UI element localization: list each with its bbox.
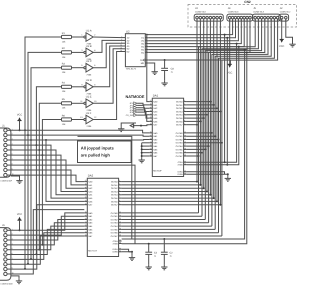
svg-text:OUTB1: OUTB1 (176, 135, 184, 138)
svg-text:All joypad inputs: All joypad inputs (81, 146, 115, 151)
wire DA2 OUTA3 to bus (122, 191, 208, 193)
svg-text:VCC: VCC (17, 213, 22, 216)
svg-text:OUTB0: OUTB0 (111, 212, 119, 215)
wire U1:B output riser to U2 pin 2D (93, 40, 122, 52)
IC U2 74ALS174 hex flip-flop (120, 30, 148, 71)
wire DA1 DIRA DIRB to ground (187, 172, 229, 176)
ground U2 MR (152, 70, 158, 75)
IC DA1 MD-BUF (149, 94, 186, 177)
wire DA1 OUTB0 to bus (187, 132, 213, 134)
wire J5 pin5 to bus B4 (212, 19, 268, 226)
wire J3 pin to DA1 OUTA1 and DA2 OUTA1 (187, 104, 215, 106)
ground DA2 DIR (129, 255, 135, 260)
wire J5 pin3 to bus B2 (205, 19, 261, 220)
svg-text:OUTB5: OUTB5 (176, 148, 184, 151)
svg-text:OUTA1: OUTA1 (111, 184, 119, 187)
wire DA2 OUTA5 to bus (122, 197, 215, 199)
svg-text:OUTA2: OUTA2 (176, 107, 184, 110)
wire R5 left to J1 bus and J6 (38, 103, 61, 250)
svg-text:OUTA4: OUTA4 (111, 194, 119, 197)
wire J6 pin1 to DA2 NB0 (11, 213, 84, 230)
wire J3 pin to DA1 OUTA2 and DA2 OUTA2 (187, 107, 218, 109)
svg-text:U1:C: U1:C (86, 60, 92, 63)
wire U1:D output riser to U2 pin 4D (93, 46, 122, 87)
resistor R4 (62, 82, 72, 94)
wire CD_SW to DA1 NA6 (137, 115, 149, 121)
wire U2 MR to ground (148, 63, 155, 70)
wire J6 pin5 to DA2 NB4 (11, 226, 84, 250)
IC DA2 MD-OUT (84, 174, 121, 257)
svg-text:OUTB0: OUTB0 (176, 132, 184, 135)
wire DA2 OUTA2 to bus (122, 187, 205, 189)
svg-text:OUTA6: OUTA6 (176, 120, 184, 123)
power flag VCC at J2 (279, 39, 284, 48)
wire U2 row to J4 pin 7 (148, 19, 247, 50)
svg-text:DA1: DA1 (153, 94, 159, 98)
svg-text:U1:B: U1:B (86, 45, 92, 48)
svg-text:3Q: 3Q (141, 43, 144, 46)
wire J1 pin3 branch to DA2 NA6 (45, 139, 84, 201)
power flag VCC at J4 (227, 64, 232, 74)
resistor R5 (62, 98, 72, 110)
svg-text:1u: 1u (171, 71, 173, 74)
svg-text:OUTB6: OUTB6 (111, 232, 119, 235)
wire U2 row to J4 pin 4 (148, 19, 238, 41)
wire aux rail to OE line (78, 136, 132, 239)
wire DA1 OUTB4 to bus (187, 145, 210, 147)
wire J6 pin2 to DA2 NB1 (11, 216, 84, 235)
connector J1 CONN-D15F (0, 124, 14, 182)
wire U1:C output riser to U2 pin 3D (93, 43, 122, 67)
wire DA2 OUTB5 to bus (122, 228, 216, 230)
wire VCC to J1 pin1 row (19, 120, 21, 131)
svg-text:OUTA5: OUTA5 (111, 197, 119, 200)
connector J2 CONN-SIL2 (279, 7, 291, 26)
svg-text:6Q: 6Q (141, 51, 144, 54)
svg-text:OUTB7: OUTB7 (111, 235, 119, 238)
svg-text:7406: 7406 (86, 73, 92, 76)
wire DA1 OUTB3 to bus (187, 142, 223, 144)
wire DA2 DIRA DIRB to ground (122, 249, 133, 255)
inverter U1:D (81, 79, 96, 95)
wire JP3 to DA1 NA3 (137, 108, 149, 112)
wire R4 to U1 gate D input (72, 86, 84, 88)
svg-text:7406: 7406 (86, 125, 92, 128)
wire J1 pin9 to DA2 NA1 (11, 170, 84, 185)
wire J1 pin7 to DA2 NA2 (11, 160, 84, 188)
wire R5 to U1 gate E input (72, 102, 84, 104)
wire J5 pin8 to bus B7 (222, 19, 278, 236)
wire J2 pin1 to VCC (281, 19, 283, 40)
svg-text:CONN-D15F: CONN-D15F (1, 179, 13, 182)
svg-text:OUTA7: OUTA7 (176, 124, 184, 127)
ground J6 shell (16, 279, 22, 284)
svg-text:/OEB: /OEB (178, 164, 184, 167)
ground J2 (289, 42, 295, 47)
wire R3 to U1 gate C input (72, 67, 84, 69)
wire U1:F output riser to U2 pin 6D (93, 52, 122, 120)
wire DA2 OUTB2 to bus (122, 219, 206, 221)
svg-text:OUTB7: OUTB7 (176, 155, 184, 158)
wire J5 pin1 to bus B0 (199, 19, 256, 213)
wire U2 row to J4 pin 5 (148, 19, 241, 44)
svg-text:CONN-SIL8: CONN-SIL8 (195, 11, 207, 14)
wire R6 left to J1 bus and J6 (41, 120, 61, 246)
svg-text:U2: U2 (126, 30, 130, 34)
ground near NATMODE (118, 123, 136, 132)
wire J6 pin10 to bus (11, 210, 84, 274)
inverter U1:F (80, 112, 97, 128)
wire J3 pin to DA1 OUTA3 and DA2 OUTA3 (187, 111, 222, 113)
wire R1 left to J1 bus and J6 (24, 37, 62, 270)
svg-text:OUTB4: OUTB4 (111, 225, 119, 228)
svg-text:OUTA3: OUTA3 (176, 110, 184, 113)
wire JP4 to DA1 NA4 (137, 110, 149, 115)
ground C2 (161, 265, 167, 270)
resistor R2 (62, 47, 72, 59)
power flag VCC near NATMODE (130, 124, 135, 129)
wire DA1 OUTB1 to bus (187, 135, 217, 137)
wire DA2 OUTB3 to bus (122, 222, 209, 224)
wire J1 pin6 to DA2 NA3 (11, 155, 84, 191)
wire DA2 OUTB0 to bus (122, 212, 199, 214)
vertical bus wire A1 (199, 21, 201, 185)
wire J3 pin to DA1 OUTA7 and DA2 OUTA7 (187, 124, 198, 126)
svg-text:VCC: VCC (279, 45, 284, 48)
wire J6 pin6 to DA2 NB5 (11, 229, 84, 254)
svg-text:4D: 4D (127, 45, 130, 48)
wire R6 to U1 gate F input (72, 119, 84, 121)
svg-text:OUTB3: OUTB3 (111, 222, 119, 225)
vertical bus wire A6 (216, 21, 218, 201)
wire VCC to J6 pin1 row (19, 220, 21, 231)
svg-text:CONN-SIL8: CONN-SIL8 (253, 11, 265, 14)
wire J4 pin1 to VCC (229, 19, 231, 65)
wire J6 shell stub (11, 276, 19, 279)
svg-text:DIRB: DIRB (178, 173, 184, 176)
svg-text:3D: 3D (127, 42, 130, 45)
ground J1 shell (11, 176, 23, 183)
svg-text:VCC: VCC (17, 114, 22, 117)
wire J5 pin7 to bus B6 (219, 19, 275, 233)
svg-text:OUTB4: OUTB4 (176, 145, 184, 148)
wire DA1 /OEA to control rail (187, 43, 238, 163)
svg-text:OUTB6: OUTB6 (176, 152, 184, 155)
inverter U1:E (80, 96, 97, 112)
wire U1:E output riser to U2 pin 5D (93, 49, 122, 104)
wire J6 pin8 to DA2 NB7 (11, 236, 84, 264)
note box: all joypad inputs are pulled high (78, 141, 132, 163)
wire DA2 OUTB1 to bus (122, 215, 202, 217)
svg-text:U1:D: U1:D (86, 79, 92, 82)
resistor R1 (62, 32, 72, 44)
wire J1 pin3 to DA1 NB2 (11, 139, 149, 142)
wire DA2 OUTA7 to bus (122, 204, 222, 206)
wire J6 pin3 to DA2 NB2 (11, 220, 84, 241)
svg-text:U1:E: U1:E (86, 96, 92, 99)
wire J3 pin to DA1 OUTA6 and DA2 OUTA6 (187, 120, 202, 122)
input pin CD_SW (126, 114, 137, 117)
svg-text:74ALS174: 74ALS174 (126, 67, 137, 70)
svg-text:OUTA0: OUTA0 (111, 181, 119, 184)
wire J5 pin2 to bus B1 (202, 19, 258, 216)
svg-text:OUTB3: OUTB3 (176, 142, 184, 145)
ground C8 (161, 81, 167, 86)
wire DA2 /OEB rail (122, 51, 248, 244)
wire R4 left to J1 bus and J6 (35, 87, 61, 255)
wire J3 pin to DA1 OUTA4 and DA2 OUTA4 (187, 114, 208, 116)
svg-text:OUTA2: OUTA2 (111, 187, 119, 190)
input pin JP5 (130, 111, 138, 114)
wire JP5 to DA1 NA5 (137, 112, 149, 118)
resistor R3 (62, 63, 72, 75)
wire J6 pin7 to DA2 NB6 (11, 233, 84, 260)
connector J6 CONN-D15M (0, 224, 14, 286)
svg-text:OUTA1: OUTA1 (176, 104, 184, 107)
wire DA2 OUTA6 to bus (122, 200, 218, 202)
wire U2 row to J4 pin 3 (148, 19, 235, 38)
svg-text:OUTA3: OUTA3 (111, 190, 119, 193)
wire J5 pin6 to bus B5 (215, 19, 271, 230)
svg-text:OUTA5: OUTA5 (176, 117, 184, 120)
svg-text:DIRA: DIRA (113, 248, 119, 251)
wire DA1 OUTB2 to bus (187, 139, 220, 141)
vertical bus wire A7 (219, 21, 221, 205)
svg-text:NATMODE: NATMODE (126, 95, 145, 99)
svg-text:1u: 1u (154, 255, 156, 258)
svg-text:MD-BUF: MD-BUF (153, 169, 162, 172)
svg-text:are pulled high: are pulled high (81, 153, 111, 158)
connector J4 CONN-SIL8 (227, 7, 253, 26)
svg-text:CONN-SIL2: CONN-SIL2 (280, 11, 292, 14)
vertical bus wire A5 (213, 21, 215, 198)
wire DA1 OUTB5 to bus (187, 148, 207, 150)
wire J1 pin8 to DA2 OE rail (11, 165, 135, 244)
svg-text:OUTB2: OUTB2 (111, 218, 119, 221)
wire control vertical OEB branch (226, 37, 228, 166)
wire DA2 OUTB4 to bus (122, 225, 212, 227)
capacitor C2 (161, 239, 173, 265)
input pin JP1 (130, 102, 138, 105)
svg-text:MD-OUT: MD-OUT (88, 249, 97, 252)
capacitor C8 (161, 60, 174, 81)
wire U1:A output to U2 pin 1D (93, 36, 122, 39)
wire R2 to U1 gate B input (72, 51, 84, 53)
power flag VCC at J1 (17, 114, 22, 121)
wire U2 VCC rail to power flag (148, 59, 230, 65)
svg-text:CD_SW: CD_SW (126, 114, 133, 117)
svg-text:OUTB2: OUTB2 (176, 138, 184, 141)
svg-text:OUTB5: OUTB5 (111, 228, 119, 231)
vertical bus wire A4 (209, 21, 211, 195)
svg-text:OUTB1: OUTB1 (111, 215, 119, 218)
svg-text:1Q: 1Q (141, 37, 144, 40)
wire R2 left to J1 bus and J6 (27, 52, 62, 264)
svg-text:OUTA0: OUTA0 (176, 101, 184, 104)
wire VCC to DA1 NA7 (133, 125, 149, 127)
inverter U1:B (81, 45, 96, 61)
svg-text:OUTA4: OUTA4 (176, 114, 184, 117)
wire U2 row to J4 pin 6 (148, 19, 244, 47)
capacitor C3 (145, 244, 157, 265)
vertical bus wire A3 (206, 21, 208, 191)
svg-text:CN2: CN2 (244, 0, 251, 4)
ground DA1 DIR (225, 176, 231, 181)
wire DA1 OUTB7 to bus (187, 155, 200, 157)
vertical bus wire A2 (203, 21, 205, 188)
svg-text:DA2: DA2 (88, 174, 94, 178)
svg-text:5D: 5D (127, 48, 130, 51)
connector J5 CONN-SIL8 (252, 7, 280, 26)
dashed enclosure CN2 (188, 5, 297, 28)
wire J1 pin10 to DA2 NA0 (11, 175, 84, 182)
wire U2 row to J4 pin 8 (148, 19, 250, 53)
ground C3 (146, 265, 152, 270)
ground DA1 NB pins (139, 158, 145, 163)
svg-text:MR: MR (141, 62, 145, 65)
wire J6 pin9 to DA2 NA7 (11, 205, 84, 269)
resistor R6 (62, 114, 72, 126)
svg-text:OUTA7: OUTA7 (111, 204, 119, 207)
svg-text:CONN-D15M: CONN-D15M (1, 282, 13, 285)
wire DA1 NB3-NB7 to ground (141, 143, 150, 158)
svg-text:1u: 1u (170, 255, 172, 258)
power flag VCC at J6 (17, 213, 22, 220)
input pin JP2 (130, 104, 138, 107)
inverter U1:C (81, 60, 96, 76)
svg-text:DIRB: DIRB (113, 251, 119, 254)
wire J1 pin2 to DA1 NB1 (11, 135, 149, 136)
connector J3 CONN-SIL8 (194, 7, 223, 26)
svg-text:OUTA6: OUTA6 (111, 200, 119, 203)
wire DA2 OUTA4 to bus (122, 194, 212, 196)
svg-text:2Q: 2Q (141, 40, 144, 43)
svg-text:1D: 1D (127, 37, 130, 40)
wire net riser to DA1 NA0 (147, 35, 150, 102)
wire DA2 OUTB6 to bus (122, 232, 219, 234)
svg-text:CONN-SIL8: CONN-SIL8 (228, 11, 240, 14)
wire J5 pin4 to bus B3 (209, 19, 265, 223)
svg-text:4Q: 4Q (141, 46, 144, 49)
svg-text:U1:F: U1:F (86, 112, 92, 115)
wire J6 pin4 to DA2 NB3 (11, 223, 84, 245)
input pin JP3 (130, 106, 138, 109)
svg-text:U1:A: U1:A (86, 29, 92, 32)
svg-text:2D: 2D (127, 39, 130, 42)
wire DA1 OUTB6 to bus (187, 152, 203, 154)
inverter U1:A (81, 29, 96, 45)
wire J1 pin4 to DA2 NA5 (11, 145, 84, 198)
wire DA2 OUTB7 to bus (122, 235, 222, 237)
wire JP1 to DA1 NA1 (137, 103, 149, 105)
svg-text:VCC: VCC (227, 71, 232, 74)
wire J1 pin1 to DA1 NB0 (11, 130, 149, 133)
wire DA1 /OEB to control rail (187, 46, 240, 165)
wire R3 left to J1 bus and J6 (30, 68, 62, 260)
wire U2 row to J4 pin 2 (147, 19, 233, 35)
wire J2 pin2 to ground (286, 19, 293, 42)
svg-text:5Q: 5Q (141, 49, 144, 52)
svg-text:/OEB: /OEB (113, 242, 119, 245)
wire DA2 OUTA0 to bus (122, 181, 198, 183)
vertical bus wire A0 (196, 21, 198, 182)
svg-text:6D: 6D (127, 50, 130, 53)
wire J1 pin5 to DA2 NA4 (11, 150, 84, 195)
wire control vertical OEA branch (224, 34, 226, 164)
wire DA2 /OEA rail (122, 49, 246, 240)
wire J3 pin to DA1 OUTA0 and DA2 OUTA0 (187, 101, 212, 103)
wire R1 to U1 gate A input (72, 36, 84, 38)
wire DA2 OUTA1 to bus (122, 184, 202, 186)
input pin JP4 (130, 109, 138, 112)
wire J3 pin to DA1 OUTA5 and DA2 OUTA5 (187, 117, 205, 119)
wire JP2 to DA1 NA2 (137, 105, 149, 108)
